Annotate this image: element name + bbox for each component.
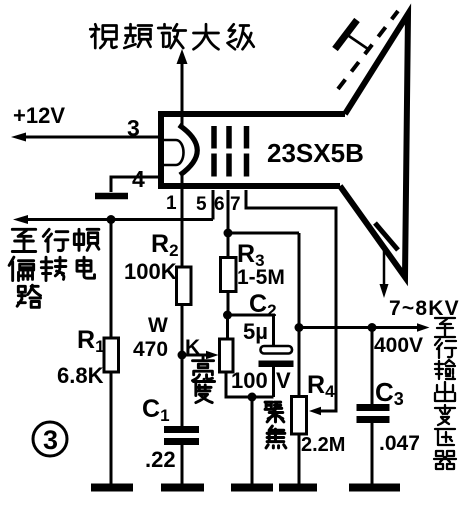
potentiometer R4 body — [292, 397, 307, 435]
svg-text:470: 470 — [133, 338, 168, 361]
grid 3 bar (pin 7) — [244, 126, 250, 177]
wire: pin 5 down — [212, 190, 215, 220]
label char: 至 (flyback, vertical) — [435, 318, 455, 337]
wire: brightness wiper arm — [182, 354, 213, 357]
arrowhead: focus wiper (left) — [309, 407, 321, 415]
label char: 至 (deflection) — [12, 229, 35, 251]
wire: 7~8KV anode lead — [383, 249, 386, 286]
svg-text:23SX5B: 23SX5B — [267, 138, 364, 168]
grid 2 bar (pin 6) — [226, 126, 232, 177]
wire: R1 branch down — [110, 220, 113, 339]
svg-text:W: W — [148, 314, 168, 337]
svg-text:7: 7 — [230, 194, 241, 215]
anode cap crossbar — [335, 20, 357, 49]
label char: 偏 — [9, 257, 34, 280]
wire: video amp line up from cathode — [181, 62, 184, 125]
wire: R1 to ground — [110, 372, 113, 488]
arrowhead: 400V to flyback (right) — [417, 323, 430, 331]
potentiometer W body — [220, 339, 234, 372]
svg-text:.22: .22 — [145, 447, 176, 472]
cathode arc (pin 1) — [179, 125, 197, 175]
wire: node to W pot top — [226, 315, 229, 339]
svg-text:100K: 100K — [124, 259, 177, 284]
wire: pin 7 to focus wiper — [246, 190, 336, 411]
wire: pin 3 heater to +12V arrow — [16, 136, 161, 139]
label char: 电 — [77, 257, 95, 278]
node: W/C2 ground junction — [248, 393, 257, 402]
label char: 大 — [194, 24, 219, 49]
node: R1/deflection junction — [107, 215, 116, 224]
resistor R3 body — [221, 258, 237, 292]
label char: 出 — [435, 382, 455, 401]
wire: cathode line down through R2 to C1 — [181, 175, 184, 426]
svg-text:100: 100 — [231, 368, 268, 393]
capacitor C1 bottom plate — [164, 438, 199, 445]
label char: 放 — [158, 24, 186, 48]
node: cathode/wiper junction — [178, 351, 187, 360]
wire: below C1 to ground — [181, 445, 184, 488]
svg-text:+12V: +12V — [13, 103, 65, 128]
arrowhead: brightness wiper (right) — [206, 351, 219, 359]
arrowhead: to video amp (up) — [177, 49, 188, 64]
heater filament (pins 3-4) — [164, 140, 184, 165]
svg-text:3: 3 — [127, 115, 140, 141]
wire: C3 top lead — [371, 328, 374, 405]
label char: 聚 (focus) — [265, 402, 284, 422]
capacitor C1 top plate — [164, 426, 199, 433]
node: pin6/R3 junction — [224, 229, 233, 238]
wire: pin 4 heater to ground — [111, 177, 160, 192]
svg-text:5: 5 — [196, 194, 207, 215]
wire: C2 bottom lead — [272, 367, 275, 397]
arrowhead: +12V (left) — [11, 133, 26, 142]
arrowhead: 7~8KV (down) — [380, 284, 389, 298]
label char: 变 — [435, 405, 455, 425]
label char: 输 — [435, 360, 455, 379]
label char: 度 — [194, 379, 215, 402]
svg-text:2.2M: 2.2M — [301, 434, 345, 456]
svg-text:7~8KV: 7~8KV — [389, 297, 460, 320]
CRT funnel outline — [340, 14, 408, 277]
label char: 级 — [228, 24, 254, 49]
anode inner coating dashed line (top) — [338, 11, 398, 89]
node: 400V/C3 junction — [368, 323, 377, 332]
label char: 转 — [41, 257, 66, 280]
label char: 焦 — [266, 426, 286, 448]
label char: 路 — [17, 285, 40, 307]
svg-text:3: 3 — [43, 425, 58, 455]
wire: R4 bottom to ground — [298, 434, 301, 488]
svg-text:.047: .047 — [379, 432, 420, 455]
capacitor C2 bottom plate — [259, 361, 294, 368]
ground (C1) — [161, 484, 204, 492]
ground (W/C2) — [231, 484, 273, 492]
wire: R3 bottom to node — [227, 292, 230, 316]
label char: 压 — [435, 429, 455, 445]
wire: node to C2 top — [228, 315, 274, 346]
wire: W pot bottom to ground node — [226, 372, 274, 397]
capacitor C3 top plate — [357, 404, 390, 411]
label char: 亮 (brightness) — [193, 357, 214, 380]
arrowhead: deflection (left) — [13, 215, 28, 224]
node: R3/W/C2 junction — [223, 311, 232, 320]
label char: 视 (video amp title) — [90, 24, 116, 48]
svg-text:1: 1 — [166, 193, 177, 214]
ground (R4) — [279, 484, 317, 492]
svg-text:1-5M: 1-5M — [237, 266, 285, 289]
capacitor C2 top plate (electrolytic +) — [261, 346, 293, 354]
svg-text:400V: 400V — [374, 334, 423, 357]
ground (pin 4) — [95, 193, 128, 200]
grid 1 bar (pin 5) — [211, 126, 217, 177]
svg-text:6.8K: 6.8K — [57, 363, 104, 388]
label char: 行 — [43, 229, 68, 251]
label char: 行 — [435, 339, 456, 358]
wire: C3 bottom lead to ground — [371, 423, 374, 486]
label char: 帧 — [74, 229, 99, 250]
CRT picture tube V (23SX5B) neck outline — [161, 114, 345, 186]
wire: deflection line to left arrow — [18, 218, 213, 221]
svg-text:4: 4 — [132, 166, 145, 192]
wire: pin 6 down to R3 — [227, 190, 230, 258]
svg-text:6: 6 — [214, 194, 225, 215]
svg-text:V: V — [276, 368, 291, 393]
label char: 频 — [124, 24, 152, 48]
svg-text:5µ: 5µ — [243, 319, 268, 344]
ground (C3) — [349, 484, 400, 492]
anode cap stem — [346, 34, 368, 49]
figure number circle 3 — [33, 422, 67, 456]
resistor R1 body — [104, 338, 119, 372]
wire: 400V line — [299, 326, 424, 329]
capacitor C3 bottom plate — [357, 416, 390, 423]
label char: 器 — [434, 451, 456, 469]
wire: pin6 node across to right rail — [228, 232, 299, 235]
wire: right rail down to R4 — [298, 233, 301, 397]
ground (R1) — [91, 484, 133, 492]
node: 400V/R4 junction — [295, 323, 304, 332]
resistor R2 body — [177, 267, 192, 305]
wire: ground node down — [251, 397, 254, 488]
anode inner coating dash (bottom) — [375, 223, 398, 250]
svg-text:K: K — [185, 336, 200, 359]
